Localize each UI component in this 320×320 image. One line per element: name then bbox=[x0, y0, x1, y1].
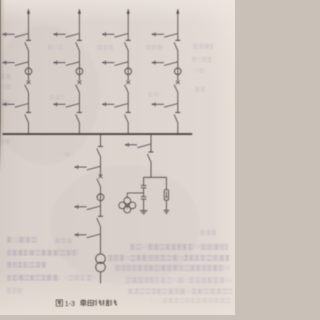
circuit breaker QF3 bbox=[125, 81, 131, 93]
caption: 图 1-3 单母线接线 bbox=[56, 300, 117, 307]
earthing tap arrow above transformer T bbox=[74, 233, 101, 238]
wire bbox=[100, 135, 102, 147]
earthing tap arrow, busbar side of QS6 bbox=[125, 143, 152, 148]
outgoing line L1 arrow bbox=[27, 8, 30, 33]
disconnector QS2-1 bbox=[25, 113, 31, 123]
current transformer TA2 bbox=[76, 68, 83, 75]
wire bbox=[127, 123, 129, 135]
outgoing line L4 arrow bbox=[176, 8, 179, 33]
earthing tap arrow, above QS2-1 bbox=[2, 102, 29, 107]
wire bbox=[100, 157, 102, 177]
earthing tap arrow, line side of QS1-2 bbox=[53, 32, 80, 37]
wire bbox=[165, 177, 167, 190]
capacitor C2 bbox=[141, 197, 146, 199]
earthing tap arrow, below QS1-3 bbox=[102, 61, 129, 66]
wire bbox=[28, 92, 30, 112]
earthing tap arrow above QF5 bbox=[74, 165, 101, 170]
ground (capacitor divider) bbox=[140, 211, 148, 214]
disconnector QS4 bbox=[97, 216, 103, 226]
wire to load bbox=[100, 272, 102, 284]
disconnector QS3 (busbar side of transformer bay) bbox=[97, 147, 103, 157]
earthing tap arrow, below QS1-1 bbox=[2, 61, 29, 66]
outgoing line L2 arrow bbox=[78, 8, 81, 33]
earthing tap arrow, below QS1-2 bbox=[53, 61, 80, 66]
disconnector QS1-2 bbox=[76, 40, 82, 50]
disconnector QS2-2 bbox=[76, 113, 82, 123]
earthing tap arrow, below QS1-4 bbox=[151, 61, 178, 66]
wire bbox=[177, 123, 179, 135]
wire bbox=[78, 50, 80, 80]
wire bbox=[100, 226, 102, 254]
wire bbox=[127, 50, 129, 80]
circuit breaker QF2 bbox=[76, 81, 82, 93]
wire bbox=[28, 123, 30, 135]
earthing tap arrow, above QS2-4 bbox=[151, 102, 178, 107]
earthing tap arrow, line side of QS1-3 bbox=[102, 32, 129, 37]
busbar WB bbox=[3, 133, 193, 135]
wire bbox=[78, 123, 80, 135]
wire bbox=[78, 92, 80, 112]
wire bbox=[143, 177, 145, 185]
wire bbox=[127, 92, 129, 112]
disconnector QS1-1 bbox=[25, 40, 31, 50]
disconnector QS2-4 bbox=[174, 113, 180, 123]
wire bbox=[78, 34, 80, 41]
wire tap to voltage transformer bbox=[127, 193, 143, 197]
earthing tap arrow, line side of QS1-4 bbox=[151, 32, 178, 37]
disconnector QS6 bbox=[147, 152, 153, 162]
outgoing line L3 arrow bbox=[127, 8, 130, 33]
current transformer TA5 bbox=[97, 194, 104, 201]
transformer T (two windings) bbox=[96, 254, 106, 272]
earthing tap arrow, above QS2-2 bbox=[53, 102, 80, 107]
wire bbox=[143, 200, 145, 211]
disconnector QS1-4 bbox=[174, 40, 180, 50]
wire bbox=[177, 34, 179, 41]
earthing tap arrow, line side of QS1-1 bbox=[2, 32, 29, 37]
coupling capacitor C1 bbox=[141, 186, 146, 188]
node: junction to CVT and arrester bbox=[144, 176, 167, 178]
wire bbox=[143, 188, 145, 196]
earthing tap arrow, above QS2-3 bbox=[102, 102, 129, 107]
current transformer TA3 bbox=[125, 68, 132, 75]
wire bbox=[28, 34, 30, 41]
svg-text:1-3: 1-3 bbox=[65, 301, 75, 308]
disconnector QS1-3 bbox=[125, 40, 131, 50]
wire bbox=[150, 162, 152, 177]
wire bbox=[127, 34, 129, 41]
surge arrester F bbox=[164, 190, 168, 201]
voltage transformer TV (four windings) bbox=[119, 197, 136, 213]
circuit breaker QF4 bbox=[174, 81, 180, 93]
wire bbox=[150, 135, 152, 152]
ground (arrester) bbox=[164, 210, 170, 213]
disconnector QS2-3 bbox=[125, 113, 131, 123]
wire bbox=[177, 92, 179, 112]
circuit breaker QF1 bbox=[25, 81, 31, 93]
circuit breaker QF5 bbox=[97, 175, 103, 187]
current transformer TA4 bbox=[175, 68, 182, 75]
wire bbox=[100, 186, 102, 216]
earthing tap arrow below TA5 bbox=[74, 205, 101, 210]
current transformer TA1 bbox=[25, 68, 32, 75]
wire bbox=[177, 50, 179, 80]
wire bbox=[165, 200, 167, 210]
wire bbox=[28, 50, 30, 80]
